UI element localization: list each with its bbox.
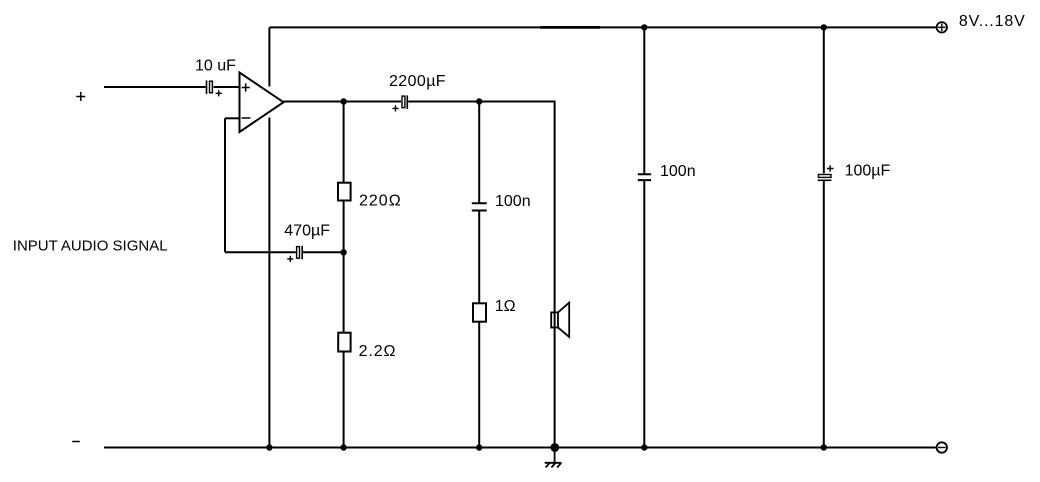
wire C5 column lower — [643, 180, 645, 447]
resistor R3 1ohm — [473, 303, 486, 321]
capacitor C3 470uF (electrolytic, horizontal) — [287, 246, 302, 262]
wire top rail doubled segment — [540, 26, 600, 29]
junction bottom rail at V- line — [266, 444, 272, 450]
junction top rail at C5 — [641, 24, 647, 30]
wire C6 column upper — [823, 27, 825, 173]
junction bottom rail at R3 — [476, 444, 482, 450]
label input minus — [72, 441, 80, 443]
wire bottom rail — [104, 447, 936, 449]
speaker LS1 — [551, 303, 569, 337]
svg-text:100µF: 100µF — [845, 163, 891, 180]
wire C5 column upper — [643, 27, 645, 174]
svg-text:8V...18V: 8V...18V — [959, 13, 1026, 30]
capacitor C6 100uF (electrolytic, vertical) — [818, 165, 834, 180]
junction bottom rail at R2 — [340, 444, 346, 450]
wire C6 column lower — [823, 181, 825, 448]
svg-text:220Ω: 220Ω — [359, 193, 402, 210]
wire V- vertical lower segment — [268, 118, 270, 448]
capacitor C4 100n (mid column) — [472, 203, 487, 210]
wire R3 to bottom rail — [478, 322, 480, 448]
svg-text:100n: 100n — [495, 193, 531, 210]
wire node C down to C4 — [478, 102, 480, 204]
ground — [545, 448, 562, 468]
capacitor C2 2200uF (electrolytic, horizontal) — [392, 95, 407, 111]
svg-text:2.2Ω: 2.2Ω — [359, 343, 397, 360]
svg-text:INPUT AUDIO SIGNAL: INPUT AUDIO SIGNAL — [13, 238, 168, 255]
capacitor C1 10uF (electrolytic, horizontal) — [207, 80, 222, 96]
junction bottom rail at speaker/ground — [550, 443, 559, 452]
terminal V+ — [937, 22, 947, 32]
wire feedback horizontal into inverting input — [225, 117, 240, 119]
junction bottom rail at C6 — [821, 444, 827, 450]
junction node A (feedback) — [340, 249, 346, 255]
wire feedback vertical — [224, 118, 226, 252]
resistor R2 2.2ohm — [338, 333, 350, 352]
junction node C (before speaker) — [476, 98, 482, 104]
wire op-amp output to C2 — [284, 101, 402, 103]
wire C3 to node A — [303, 251, 344, 253]
svg-text:10 uF: 10 uF — [195, 57, 236, 74]
junction top rail at C6 — [821, 24, 827, 30]
resistor R1 220ohm — [338, 183, 351, 201]
terminal V- — [937, 442, 947, 452]
wire C4 to R3 — [478, 211, 480, 303]
wire top rail — [269, 26, 935, 28]
wire feedback to C3 — [225, 251, 296, 253]
wire input left of C1 — [104, 86, 206, 88]
svg-text:470µF: 470µF — [284, 223, 330, 240]
wire R2 to bottom rail — [343, 352, 345, 448]
junction bottom rail at C5 — [641, 444, 647, 450]
wire R1 to node A — [343, 201, 345, 333]
wire V+ vertical upper segment — [268, 27, 270, 86]
wire speaker column — [554, 102, 556, 448]
op-amp U1 — [240, 73, 284, 133]
svg-text:100n: 100n — [660, 163, 696, 180]
wire C2 to speaker corner — [408, 101, 555, 103]
svg-text:2200µF: 2200µF — [389, 73, 446, 90]
svg-text:1Ω: 1Ω — [495, 298, 516, 315]
wire node B down to R1 — [343, 102, 345, 183]
capacitor C5 100n (right column) — [638, 174, 651, 180]
label input plus — [76, 92, 85, 101]
wire input right of C1 — [214, 86, 240, 88]
junction node B (output) — [340, 98, 346, 104]
